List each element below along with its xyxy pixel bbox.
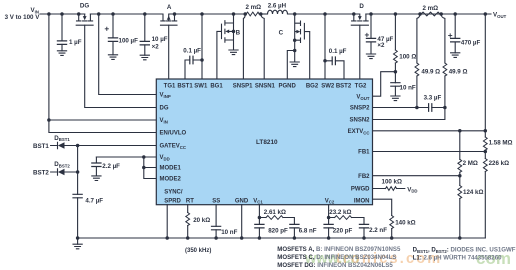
svg-text:470 µF: 470 µF xyxy=(461,40,481,47)
svg-text:×2: ×2 xyxy=(377,42,385,49)
resistor 49.9 Ohm right xyxy=(443,63,447,76)
svg-text:23.2 kΩ: 23.2 kΩ xyxy=(329,209,351,216)
svg-text:VDD: VDD xyxy=(160,155,170,161)
svg-text:2.61 kΩ: 2.61 kΩ xyxy=(264,209,286,216)
svg-text:MODE2: MODE2 xyxy=(160,177,182,183)
node VOUT label xyxy=(484,12,488,16)
svg-text:LT8210: LT8210 xyxy=(256,139,278,146)
resistor 124 kOhm xyxy=(459,176,461,238)
svg-text:EXTVCC: EXTVCC xyxy=(348,129,370,135)
svg-text:D: D xyxy=(359,3,364,10)
svg-text:BG1: BG1 xyxy=(210,84,223,90)
svg-text:10 µF: 10 µF xyxy=(152,36,168,43)
svg-text:VIN: VIN xyxy=(160,118,168,124)
svg-text:SNSN1: SNSN1 xyxy=(255,84,276,90)
svg-text:0.1 µF: 0.1 µF xyxy=(183,47,201,54)
svg-text:2.6 µH: 2.6 µH xyxy=(268,2,287,9)
svg-text:1.58 MΩ: 1.58 MΩ xyxy=(489,139,513,146)
svg-text:DG: DG xyxy=(160,106,169,112)
svg-text:×2: ×2 xyxy=(152,44,160,51)
svg-text:2.2 nF: 2.2 nF xyxy=(369,227,387,234)
svg-text:DBST1: DBST1 xyxy=(54,135,70,142)
svg-text:2 MΩ: 2 MΩ xyxy=(463,160,478,167)
wire GATEVCC to chip xyxy=(76,144,80,148)
transistor B MOSFET xyxy=(232,12,236,16)
svg-text:SNSN2: SNSN2 xyxy=(349,118,370,124)
svg-text:2.2 µF: 2.2 µF xyxy=(102,163,120,170)
ground for 1uF xyxy=(57,51,66,56)
svg-text:20 kΩ: 20 kΩ xyxy=(193,217,210,224)
wire SNSP2 line with 3.3uF xyxy=(373,107,445,109)
pin labels top row xyxy=(164,84,367,90)
svg-text:FB1: FB1 xyxy=(358,150,370,156)
svg-text:C: C xyxy=(279,29,284,36)
svg-text:PWGD: PWGD xyxy=(351,187,370,193)
svg-text:4.7 µF: 4.7 µF xyxy=(85,197,103,204)
wire EXTVCC to VOUT xyxy=(373,130,486,132)
svg-text:SW1: SW1 xyxy=(194,84,208,90)
ground for 470uF xyxy=(451,53,460,58)
wire A gate to TG1 pin xyxy=(168,25,170,79)
svg-text:SYNC/: SYNC/ xyxy=(164,190,183,196)
svg-text:3.3 µF: 3.3 µF xyxy=(424,95,442,102)
pin labels right column xyxy=(348,94,371,192)
svg-text:B: B xyxy=(236,30,241,37)
svg-text:VOUT: VOUT xyxy=(356,94,369,100)
svg-text:100 kΩ: 100 kΩ xyxy=(382,179,402,186)
svg-text:140 kΩ: 140 kΩ xyxy=(395,220,415,227)
svg-text:SNSP1: SNSP1 xyxy=(233,84,253,90)
wire MODE1 MODE2 strap xyxy=(142,155,146,159)
svg-text:GND: GND xyxy=(235,198,249,204)
wire SNSN1 sense line xyxy=(261,15,264,79)
wire ground rail xyxy=(78,237,486,239)
svg-text:GATEVCC: GATEVCC xyxy=(160,144,186,150)
wire SNSP1 sense line xyxy=(243,15,245,79)
svg-text:VC1: VC1 xyxy=(253,198,263,204)
wire FB1 xyxy=(373,151,486,153)
svg-text:MOSFET DG: INFINEON BSZ042N06L: MOSFET DG: INFINEON BSZ042N06LS5 xyxy=(277,262,393,269)
svg-text:SW2: SW2 xyxy=(321,84,335,90)
svg-text:SPRD: SPRD xyxy=(164,198,181,204)
svg-text:220 pF: 220 pF xyxy=(333,227,353,234)
wire FB2 xyxy=(373,175,460,177)
wire rail A to sense resistor xyxy=(175,13,247,15)
svg-text:SNSP2: SNSP2 xyxy=(350,106,370,112)
svg-text:DBST2: DBST2 xyxy=(54,161,70,168)
svg-text:MODE1: MODE1 xyxy=(160,166,182,172)
svg-text:VINP: VINP xyxy=(160,93,171,99)
wire VDD to chip xyxy=(96,156,156,158)
svg-text:49.9 Ω: 49.9 Ω xyxy=(421,69,440,76)
ground for 47uF xyxy=(366,54,375,59)
pin labels left column xyxy=(160,93,187,196)
wire rail D to VOUT xyxy=(366,13,491,15)
capacitor 470uF output bulk xyxy=(453,12,457,16)
wire VIN rail to DG xyxy=(40,13,85,15)
svg-text:MOSFETS C, D: INFINEON BSZ034N: MOSFETS C, D: INFINEON BSZ034N04LS xyxy=(277,254,396,261)
svg-text:820 pF: 820 pF xyxy=(268,227,288,234)
capacitor 220pF xyxy=(328,218,330,239)
svg-text:VC2: VC2 xyxy=(325,198,335,204)
svg-text:2 mΩ: 2 mΩ xyxy=(246,4,262,11)
capacitor C 1uF input xyxy=(60,12,64,16)
wire VINP branch xyxy=(97,12,101,16)
resistor 140 kOhm xyxy=(390,216,394,229)
resistor 100 Ohm snubber xyxy=(394,12,398,16)
svg-text:10 nF: 10 nF xyxy=(221,229,237,236)
wire SW2 to chip xyxy=(323,12,327,16)
svg-text:BST2: BST2 xyxy=(336,84,352,90)
svg-text:TG2: TG2 xyxy=(355,84,367,90)
ground for 100uF xyxy=(108,55,117,60)
svg-text:L1: 2.6 µH WÜRTH 7443558260: L1: 2.6 µH WÜRTH 7443558260 xyxy=(413,255,502,262)
wire rail DG to MOSFET A xyxy=(90,14,163,21)
ground for B xyxy=(229,50,238,55)
svg-text:BST2: BST2 xyxy=(33,170,49,177)
svg-text:DG: DG xyxy=(80,2,89,9)
svg-text:10 nF: 10 nF xyxy=(400,84,416,91)
svg-text:226 kΩ: 226 kΩ xyxy=(489,160,509,167)
capacitor 2.2nF xyxy=(359,224,368,228)
resistor 49.9 Ohm left xyxy=(415,63,419,76)
wire VC1 pin xyxy=(258,205,260,218)
svg-text:(350 kHz): (350 kHz) xyxy=(185,248,211,254)
svg-text:BG2: BG2 xyxy=(306,84,319,90)
capacitor 10nF snubber xyxy=(394,72,396,96)
svg-text:MOSFETS A, B: INFINEON BSZ097N: MOSFETS A, B: INFINEON BSZ097N10NS5 xyxy=(277,246,401,253)
capacitor 6.8nF xyxy=(290,224,299,228)
resistor 226 kOhm xyxy=(483,159,487,172)
wire output sense right leg xyxy=(441,15,445,63)
svg-text:PGND: PGND xyxy=(279,84,297,90)
capacitor 3.3uF sense filter xyxy=(429,104,432,112)
svg-text:VOUT: VOUT xyxy=(493,12,507,19)
svg-text:124 kΩ: 124 kΩ xyxy=(463,189,483,196)
wire SW1 to chip xyxy=(200,12,204,16)
wire SYNC/SPRD to ground rail xyxy=(166,205,168,238)
resistor 1.58 MOhm xyxy=(483,137,487,150)
svg-text:A: A xyxy=(167,4,172,11)
ground for 2.2uF xyxy=(92,176,101,181)
resistor 20 kOhm RT xyxy=(187,205,189,238)
svg-text:6.8 nF: 6.8 nF xyxy=(299,227,317,234)
svg-text:0.1 µF: 0.1 µF xyxy=(329,48,347,55)
wire rail inductor to C/D xyxy=(288,13,354,15)
wire VOUT divider vertical xyxy=(484,14,486,238)
wire D gate to TG2 pin xyxy=(359,25,361,79)
wire C source to PGND pin xyxy=(293,49,297,53)
capacitor 820pF xyxy=(258,218,260,239)
capacitor 47uF x2 output xyxy=(369,12,373,16)
svg-text:1 µF: 1 µF xyxy=(69,39,82,46)
svg-text:FB2: FB2 xyxy=(358,174,370,180)
ground main symbol xyxy=(77,238,79,244)
wire GND pin to rail xyxy=(241,205,243,238)
svg-text:100 µF: 100 µF xyxy=(119,38,139,45)
capacitor 4.7uF GATEVCC xyxy=(77,146,79,239)
capacitor 10uF x2 xyxy=(143,12,147,16)
capacitor 100uF input bulk xyxy=(111,12,115,16)
wire VC2 pin xyxy=(328,205,330,218)
svg-text:DBST1, DBST2: DIODES INC. US1G: DBST1, DBST2: DIODES INC. US1GWF xyxy=(413,247,516,254)
wire output sense left leg xyxy=(417,15,420,63)
ground for 10nF xyxy=(391,96,400,101)
svg-text:49.9 Ω: 49.9 Ω xyxy=(449,68,468,75)
svg-text:EN/UVLO: EN/UVLO xyxy=(160,131,187,137)
svg-text:BST1: BST1 xyxy=(177,84,193,90)
wire IMON xyxy=(373,199,392,238)
svg-text:BST1: BST1 xyxy=(33,143,49,150)
pin labels bottom row xyxy=(164,198,369,204)
node junction VIN/EN branch xyxy=(47,12,51,16)
svg-text:IMON: IMON xyxy=(354,198,370,204)
capacitor 2.2uF VDD xyxy=(95,157,97,176)
ground for 10uF xyxy=(140,55,149,60)
capacitor 10nF SS xyxy=(215,205,217,238)
svg-text:SS: SS xyxy=(212,198,220,204)
svg-text:2 mΩ: 2 mΩ xyxy=(423,5,439,12)
wire DG gate to DG pin xyxy=(85,25,157,107)
op-amp U1 LT8210 controller IC body xyxy=(156,79,372,205)
svg-text:3 V to 100 V: 3 V to 100 V xyxy=(5,14,41,21)
svg-text:100 Ω: 100 Ω xyxy=(399,54,416,61)
resistor 2 MOhm xyxy=(459,131,461,176)
svg-text:RT: RT xyxy=(186,198,194,204)
wire VOUT pin to 100 Ohm node xyxy=(373,72,396,97)
wire SNSN2 return xyxy=(373,108,445,120)
ground for C xyxy=(290,62,299,67)
wire VIN/EN vertical branch xyxy=(49,14,156,133)
svg-text:TG1: TG1 xyxy=(164,84,176,90)
svg-text:VDD: VDD xyxy=(407,186,417,193)
